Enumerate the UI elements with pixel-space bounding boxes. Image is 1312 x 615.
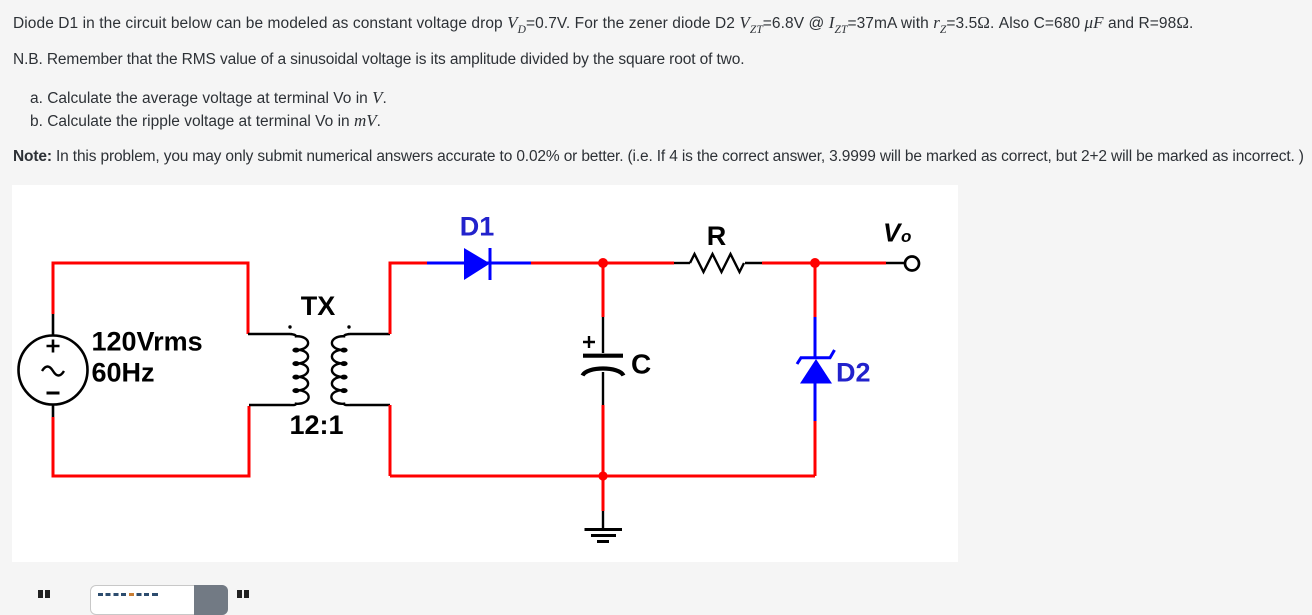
answer submit button fragment <box>194 585 228 615</box>
diode D1 <box>427 248 531 280</box>
wire D1 to node <box>531 262 674 265</box>
svg-text:TX: TX <box>301 291 336 321</box>
wire zener to bottom <box>814 421 817 476</box>
transformer TX <box>248 325 390 405</box>
wire node to zener <box>814 263 817 317</box>
wire node to ground <box>602 476 605 511</box>
svg-text:12:1: 12:1 <box>289 410 343 440</box>
wire bottom rail <box>390 475 815 478</box>
circuit panel <box>12 185 958 563</box>
node junction bottom <box>598 471 607 480</box>
node junction top-D2 <box>810 258 820 268</box>
resistor R <box>674 254 762 272</box>
terminal Vo <box>886 257 919 271</box>
answer input box <box>90 585 228 615</box>
svg-text:120Vrms: 120Vrms <box>92 327 203 357</box>
capacitor C <box>583 317 624 405</box>
wire secondary bottom <box>389 405 392 476</box>
svg-text:R: R <box>707 221 727 251</box>
node junction top-C <box>598 258 608 268</box>
answer unit fragment right <box>237 590 242 598</box>
wire capacitor to bottom <box>602 405 605 476</box>
wire top-left loop <box>53 263 248 334</box>
wire bottom-left loop <box>53 406 249 476</box>
svg-text:D2: D2 <box>836 358 871 388</box>
svg-text:D1: D1 <box>460 212 495 242</box>
svg-text:o: o <box>901 227 911 246</box>
answer label fragment left <box>38 590 43 598</box>
svg-text:V: V <box>883 218 903 248</box>
answer input text fragment <box>98 593 158 597</box>
wire R to terminal <box>762 262 886 265</box>
svg-text:60Hz: 60Hz <box>92 358 155 388</box>
svg-text:C: C <box>631 349 651 380</box>
wire secondary top <box>390 263 427 334</box>
AC source V1 <box>19 314 88 417</box>
wire node to capacitor <box>602 263 605 317</box>
ground <box>585 511 623 542</box>
zener diode D2 <box>797 317 835 421</box>
